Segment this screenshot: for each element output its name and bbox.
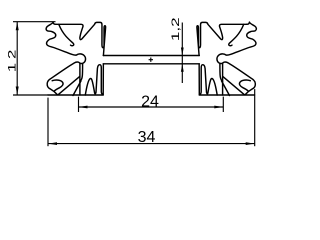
svg-text:12: 12: [6, 46, 19, 72]
svg-text:24: 24: [141, 94, 159, 111]
svg-text:34: 34: [138, 129, 156, 146]
svg-text:1,2: 1,2: [170, 17, 183, 41]
